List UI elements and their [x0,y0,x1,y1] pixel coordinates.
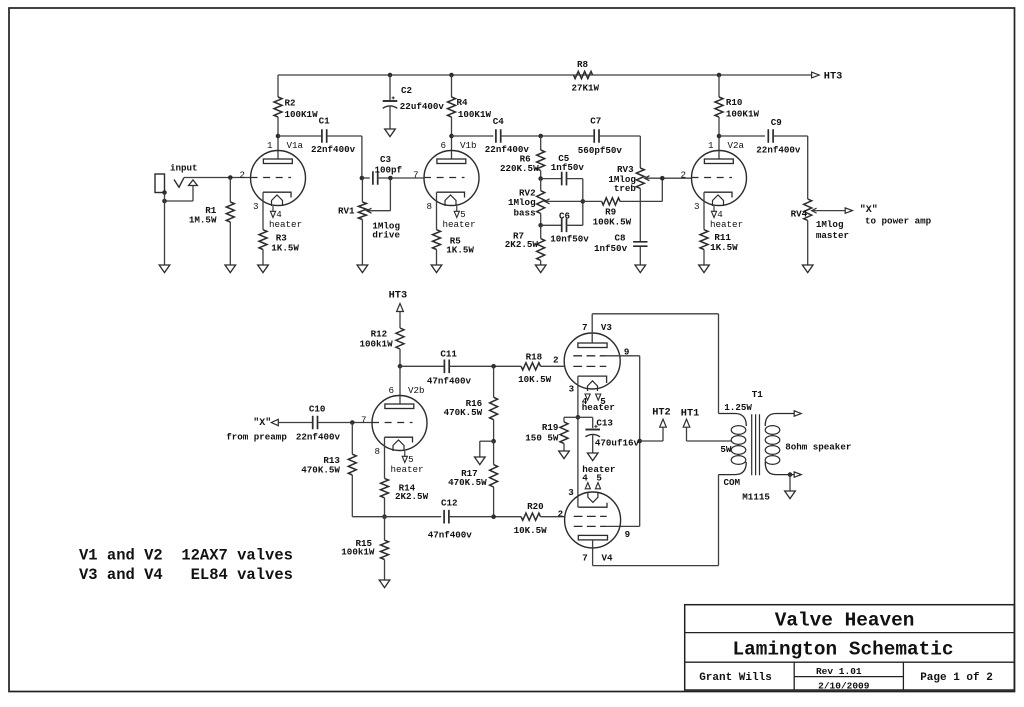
svg-text:470uf16v: 470uf16v [595,438,640,449]
svg-text:1K.5W: 1K.5W [446,244,474,255]
svg-text:7: 7 [582,322,588,333]
triode U V1b [413,140,479,230]
svg-text:22nf400v: 22nf400v [311,144,356,155]
node: C3/RV1 wiper node [388,176,393,181]
wire: C3 to V1b grid [378,177,424,179]
node: jack sleeve [162,190,167,195]
node: slope riser / wiper [581,199,586,204]
svg-text:C8: C8 [615,233,627,244]
svg-text:T1: T1 [752,389,764,400]
svg-text:C9: C9 [771,117,782,128]
node: R6 bottom / C5 [538,176,543,181]
wire: HT3 rail [278,74,812,76]
wire: V3 cathode to bus [577,376,579,507]
resistor R14 2K2.5W [381,478,429,516]
svg-text:C13: C13 [596,418,613,429]
node: speaker return [788,472,793,477]
svg-text:from preamp: from preamp [226,431,287,442]
svg-text:HT3: HT3 [389,290,408,302]
wire: R9 to treble node [620,179,662,202]
svg-text:1nf50v: 1nf50v [594,243,628,254]
capacitor C7 560pf50v [578,115,623,155]
svg-text:HT3: HT3 [824,71,843,83]
resistor R2 100K1W [274,75,318,136]
node: screen bus / HT2 [637,439,642,444]
svg-text:3: 3 [568,487,574,498]
svg-text:2: 2 [680,170,686,181]
svg-text:8ohm speaker: 8ohm speaker [785,441,851,452]
ground (R1) [225,265,236,273]
net label HT2 (arrow) [640,407,671,441]
svg-text:2K2.5W: 2K2.5W [505,239,539,250]
capacitor C5 1nf50v [551,153,585,186]
svg-text:Grant Wills: Grant Wills [699,672,772,684]
svg-text:C1: C1 [319,116,331,127]
capacitor C2 22uf400v [383,85,445,129]
svg-text:Lamington Schematic: Lamington Schematic [732,639,953,661]
wire: C10 to V2b grid [318,422,373,424]
resistor R4 100K1W [448,75,492,136]
wire: C9 to RV4 [773,136,808,199]
ground (R15) [379,580,390,588]
ground (R7) [535,265,546,273]
node: C3 input node [360,176,365,181]
svg-text:1K.5W: 1K.5W [710,242,738,253]
svg-text:1nf50v: 1nf50v [551,162,585,173]
resistor R16 470K.5W [444,366,498,441]
svg-text:8: 8 [426,201,432,212]
resistor R15 100k1W [341,517,388,580]
resistor R6 220K.5W [500,136,545,179]
svg-text:9: 9 [625,529,631,540]
svg-text:C10: C10 [309,404,326,415]
capacitor C10 22nf400v [296,404,341,443]
ground (speaker) [785,491,796,499]
svg-text:to power amp: to power amp [865,216,932,227]
node: R10 top on HT3 rail [717,73,722,78]
wire: node to C6 [541,224,562,226]
svg-text:C11: C11 [440,348,457,359]
svg-text:100K1W: 100K1W [458,109,492,120]
svg-text:100k1W: 100k1W [360,338,394,349]
svg-text:R4: R4 [457,97,469,108]
svg-text:V1b: V1b [460,140,477,151]
node: V2b plate node [398,364,403,369]
wire: C2 top lead [389,75,391,101]
resistor R1 1M.5W [189,178,234,266]
triode U V2b [361,385,427,475]
ground (R11) [699,265,710,273]
wire: C1 to RV1 top [327,136,362,178]
wire: V2b cathode to R14 [384,437,386,478]
svg-text:100pf: 100pf [375,165,403,176]
svg-text:input: input [170,163,198,174]
node: V2a plate node [717,134,722,139]
wire: jack tip to V1a grid [184,177,251,179]
wire: node to C3 [362,177,370,179]
wire: C11 to R18 [449,365,521,367]
svg-text:V1a: V1a [287,140,304,151]
potentiometer RV4 1Mlog master [791,199,849,265]
resistor R10 100K1W [715,75,759,136]
input jack J1 [155,163,198,201]
svg-text:47nf400v: 47nf400v [428,529,473,540]
resistor R11 1K.5W [700,230,738,265]
net label HT1 (arrow) [681,407,732,441]
svg-text:22uf400v: 22uf400v [400,101,445,112]
potentiometer RV2 1Mlog bass [508,179,550,226]
wire: bus to C13 [578,417,593,428]
svg-text:22nf400v: 22nf400v [296,431,341,442]
wire: V1a plate lead [277,136,279,159]
svg-text:R10: R10 [726,97,743,108]
speaker + terminal (arrow) [794,411,801,416]
note: valve types [79,547,293,585]
capacitor C3 100pf [373,154,403,185]
svg-text:220K.5W: 220K.5W [500,163,539,174]
svg-text:2K2.5W: 2K2.5W [395,491,429,502]
svg-text:RV4: RV4 [791,208,808,219]
svg-text:2/10/2009: 2/10/2009 [818,680,870,691]
svg-text:3: 3 [694,201,700,212]
ground (C13) [587,453,598,461]
transformer T1 secondary [765,414,794,475]
svg-text:470K.5W: 470K.5W [448,477,487,488]
capacitor C1 22nf400v [311,116,356,155]
svg-text:5W: 5W [720,444,732,455]
svg-text:COM: COM [724,477,741,488]
label speaker [785,441,851,452]
svg-text:8: 8 [374,446,380,457]
ground (jack) [159,265,170,273]
svg-text:1K.5W: 1K.5W [271,242,299,253]
svg-text:Rev 1.01: Rev 1.01 [816,666,862,677]
wire: speaker return to ground [789,475,791,491]
svg-text:V3 and V4 EL84 valves: V3 and V4 EL84 valves [79,566,293,584]
svg-text:2: 2 [239,170,245,181]
ground (R3) [258,265,269,273]
svg-text:47nf400v: 47nf400v [427,376,472,387]
wire: V3 plate to OT top [592,314,718,414]
net label HT3 (arrow) [812,71,843,83]
node A: V1a plate node [276,134,281,139]
ground (R19) [559,451,570,459]
svg-text:V2a: V2a [728,140,745,151]
wire: RV3 wiper to V2a grid [645,177,691,179]
svg-text:heater: heater [710,219,743,230]
svg-text:1: 1 [267,140,273,151]
svg-text:"X": "X" [253,417,271,429]
svg-text:22nf400v: 22nf400v [756,145,801,156]
svg-text:1.25W: 1.25W [724,402,752,413]
svg-text:7: 7 [582,552,588,563]
svg-text:100K1W: 100K1W [726,109,760,120]
node: jack tip return [162,199,167,204]
svg-text:3: 3 [253,201,259,212]
node: C12/R17 junction [491,514,496,519]
wire: node to C5 [541,178,562,180]
svg-text:2: 2 [558,508,564,519]
svg-text:100k1W: 100k1W [341,547,375,558]
svg-text:V3: V3 [601,322,613,333]
svg-text:drive: drive [372,230,400,241]
resistor R3 1K.5W [259,230,299,265]
wire: RV2 wiper to riser [546,200,583,202]
svg-text:C2: C2 [401,85,412,96]
svg-text:RV1: RV1 [338,206,355,217]
svg-text:heater: heater [391,464,424,475]
svg-text:470K.5W: 470K.5W [301,464,340,475]
potentiometer RV3 1Mlog treb [608,164,649,241]
resistor R9 100K.5W [593,198,632,228]
node: cathode bus junction [576,415,581,420]
ground (grid return) [475,457,486,465]
svg-text:M1115: M1115 [742,492,770,503]
svg-text:1: 1 [708,140,714,151]
resistor R5 1K.5W [433,230,475,265]
svg-text:master: master [816,230,849,241]
svg-text:C12: C12 [441,497,458,508]
capacitor C12 47nf400v [428,497,473,540]
svg-text:1M.5W: 1M.5W [189,215,217,226]
node: C2 tap on HT3 rail [388,73,393,78]
svg-text:V1 and V2 12AX7 valves: V1 and V2 12AX7 valves [79,547,293,565]
labels T1 [720,389,770,503]
svg-text:V2b: V2b [408,385,425,396]
svg-text:HT2: HT2 [652,407,671,419]
svg-text:3: 3 [569,383,575,394]
resistor R13 470K.5W [301,423,356,517]
capacitor C11 47nf400v [444,360,449,374]
svg-text:C3: C3 [380,154,392,165]
svg-text:heater: heater [269,219,302,230]
svg-text:R20: R20 [527,501,544,512]
net label HT3 (power amp feed) [389,290,408,312]
node: tone stack top node [538,134,543,139]
resistor R19 150 5W [525,422,568,451]
svg-text:heater: heater [582,402,615,413]
node: C11/R16 junction [491,364,496,369]
svg-text:560pf50v: 560pf50v [578,145,623,156]
resistor R20 10K.5W [514,501,548,536]
wire: V2a plate node to C9 [719,135,765,137]
svg-text:10nf50v: 10nf50v [550,234,589,245]
transformer T1 primary [719,414,747,475]
capacitor C4 22nf400v [485,116,530,155]
wire: grid return to ground [480,441,494,457]
wire: V2a cathode to R11 [703,192,705,230]
wire: jack sleeve to ground [164,193,166,266]
wire: riser to R9 [583,200,602,202]
wire: C4 to tone stack top [501,135,594,137]
wire: V4 plate to OT bottom [593,475,719,566]
svg-text:Valve Heaven: Valve Heaven [775,610,915,632]
svg-text:100K1W: 100K1W [285,109,319,120]
svg-text:7: 7 [361,415,367,426]
labels C11 [427,348,472,386]
wire: X to C10 [278,422,312,424]
capacitor C13 470uf16v [585,418,639,454]
svg-text:6: 6 [388,385,394,396]
wire: wiper riser [368,178,391,211]
resistor R7 2K2.5W [505,225,545,265]
wire: V3 screen to bus [606,356,640,527]
svg-text:470K.5W: 470K.5W [444,407,483,418]
wire: R20 to V4 grid [541,516,565,518]
wire: C7 to RV3 top [599,136,640,168]
svg-text:7: 7 [413,170,419,181]
node: R16/R17 grid return [491,439,496,444]
resistor R18 10K.5W [518,352,552,385]
svg-text:HT1: HT1 [681,407,700,419]
svg-text:1Mlog: 1Mlog [816,219,844,230]
pentode U V3 (EL84) [553,322,629,413]
capacitor C9 22nf400v [756,117,801,156]
ground (C8) [635,265,646,273]
resistor R8 27K1W (in rail) [572,59,600,94]
resistor R12 100k1W [360,328,404,366]
svg-text:150 5W: 150 5W [525,432,559,443]
node: R4 top on HT3 rail [449,73,454,78]
svg-text:2: 2 [553,355,559,366]
wire: RV4 wiper out [813,210,846,212]
svg-text:C4: C4 [493,116,505,127]
node: treble/slope junction [660,176,665,181]
potentiometer RV1 1Mlog drive [338,178,400,265]
wire: V2a plate lead [718,136,720,159]
ground (C2) [385,129,396,137]
triode U V1a [239,140,305,230]
wire: V1a plate node to C1 [278,135,322,137]
triode U V2a [680,140,746,230]
transformer T1 core [752,414,760,475]
capacitor C8 1nf50v [594,233,648,266]
svg-text:heater: heater [582,464,615,475]
wire: V2b plate lead [399,366,401,404]
wire: C6 to riser bottom [567,224,583,226]
wire: C12 to R20 [449,516,521,518]
svg-text:V4: V4 [602,552,614,563]
svg-text:R19: R19 [542,422,559,433]
pentode U V4 (EL84) [558,464,631,563]
net label X in (arrow) [226,417,287,443]
node: V1b plate node [449,134,454,139]
net label X out (arrow) [845,204,931,226]
wire: bus to R19 [564,417,578,422]
svg-text:treb: treb [614,183,637,194]
svg-text:R8: R8 [577,59,589,70]
node: grid/R1 [228,175,233,180]
ground (RV1) [357,265,368,273]
svg-text:Page 1 of 2: Page 1 of 2 [920,672,993,684]
ground (RV4) [802,265,813,273]
svg-text:27K1W: 27K1W [572,83,600,94]
wire: V1b plate node to C4 [452,135,494,137]
capacitor C6 10nf50v [550,210,589,244]
wire: R18 to V3 grid [541,365,565,367]
svg-text:100K.5W: 100K.5W [593,217,632,228]
svg-text:R2: R2 [285,98,296,109]
svg-text:C6: C6 [559,210,570,221]
svg-text:C7: C7 [590,115,601,126]
wire: HT3 to R12 [399,312,401,329]
speaker - terminal (arrow) [794,472,801,477]
wire: C5 to right riser [567,179,583,226]
wire: NFB bus [352,516,441,518]
node: RV2 bottom / C6 [538,223,543,228]
svg-text:10K.5W: 10K.5W [514,525,548,536]
ground (R5) [431,265,442,273]
wire: V1a cathode to R3 [262,192,264,230]
wire: V1b cathode to R5 [436,192,438,230]
svg-text:bass: bass [514,208,536,219]
node: R14/R15/NFB node [382,514,387,519]
svg-text:heater: heater [443,219,476,230]
svg-text:"X": "X" [860,204,878,216]
node: V2b grid / R13 [350,420,355,425]
wire: V1b plate lead [451,136,453,159]
svg-text:10K.5W: 10K.5W [518,374,552,385]
svg-text:R18: R18 [526,352,543,363]
resistor R17 470K.5W [448,441,498,517]
wire: plate node to C11 [400,365,444,367]
svg-text:6: 6 [440,140,446,151]
